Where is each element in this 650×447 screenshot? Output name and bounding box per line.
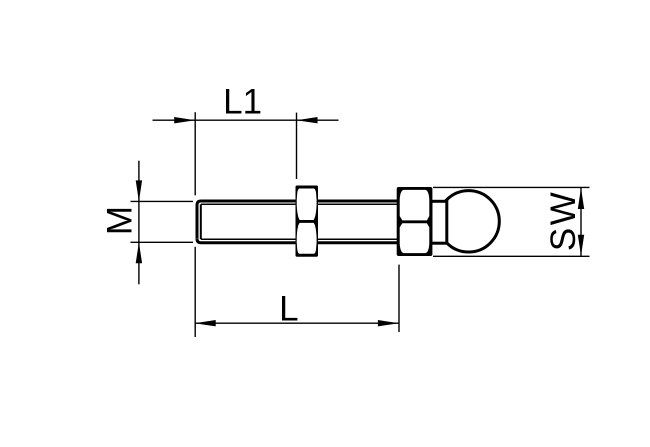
thread root line top — [201, 203, 397, 205]
thread root line bottom — [201, 238, 397, 240]
dimension L arrow left — [195, 320, 216, 326]
hex N2 body — [397, 187, 433, 256]
dimension L1 arrow left — [174, 117, 195, 123]
dimension L extension line right — [398, 265, 400, 332]
dimension L1 line — [153, 119, 339, 121]
dimension L arrow right — [378, 320, 399, 326]
dimension M arrow top — [136, 180, 142, 201]
svg-text:SW: SW — [544, 190, 583, 251]
hex N2 lower facet — [400, 223, 430, 253]
dimension L line — [195, 322, 400, 324]
svg-text:L1: L1 — [223, 82, 262, 121]
dimension M arrow bottom — [136, 242, 142, 263]
svg-text:L: L — [279, 289, 298, 328]
svg-text:M: M — [100, 206, 139, 235]
dimension L1 extension line right — [296, 113, 298, 179]
dimension SW extension line top — [433, 186, 590, 188]
chamfer line at rod left end — [200, 204, 202, 239]
dimension L1/L extension line left lower — [194, 247, 196, 337]
dimension M extension line bottom — [131, 241, 194, 243]
dimension SW arrow top — [578, 188, 584, 209]
hex N2 upper facet — [400, 190, 430, 221]
dimension M line — [138, 161, 140, 285]
neck between hex and ball — [431, 201, 447, 243]
dimension M extension line top — [131, 200, 194, 202]
nut N1 body — [296, 186, 319, 257]
dimension SW line — [580, 187, 582, 256]
nut N1 lower facet — [297, 223, 317, 254]
threaded rod body — [197, 201, 399, 243]
dimension SW arrow bottom — [578, 235, 584, 256]
ball head circle — [438, 191, 499, 252]
dimension SW extension line bottom — [433, 255, 590, 257]
dimension L1 extension line left upper — [194, 112, 196, 195]
rod rounded left corners — [197, 201, 201, 243]
nut N1 upper facet — [297, 189, 317, 221]
dimension L1 arrow right — [297, 117, 318, 123]
